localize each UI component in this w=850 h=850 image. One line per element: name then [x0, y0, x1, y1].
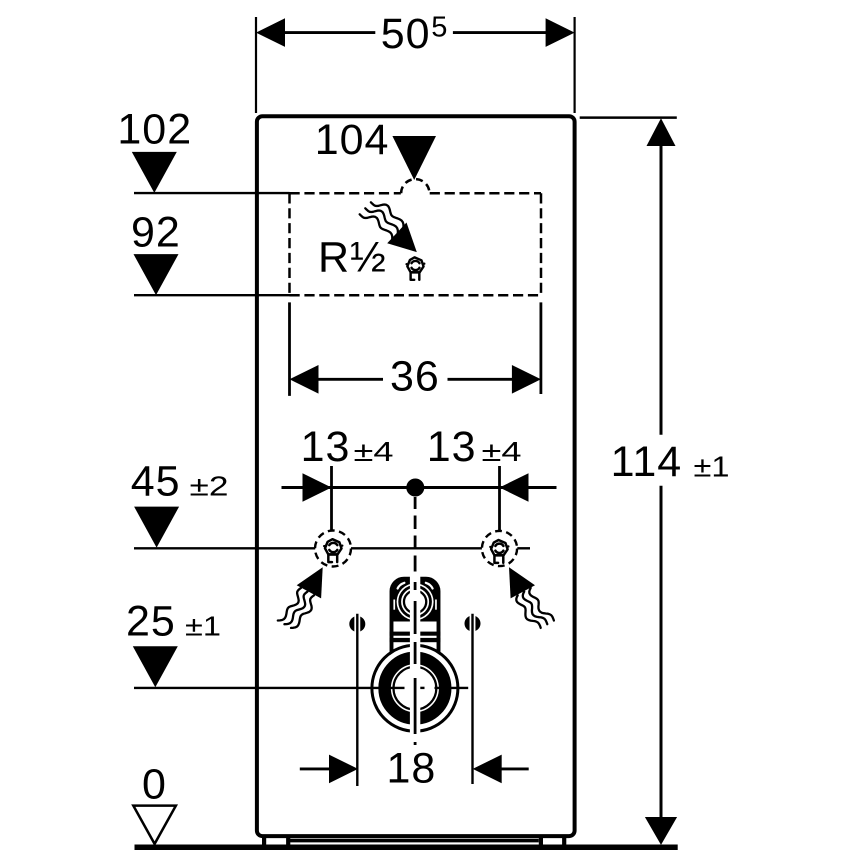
dashed circle left fitting — [315, 531, 351, 567]
water supply fitting icon (top) — [405, 257, 425, 279]
centerline white halo — [410, 574, 420, 734]
left bolt line / dimension 18 extension left — [356, 614, 358, 786]
left bolt halo — [354, 616, 360, 633]
svg-text:25: 25 — [126, 598, 176, 646]
svg-text:13: 13 — [427, 423, 477, 471]
center reference dot — [406, 479, 424, 497]
dimension 13 line — [282, 486, 557, 489]
water flow squiggle left 1 — [278, 588, 301, 621]
base plate line — [290, 839, 539, 843]
water supply fitting icon (left) — [323, 539, 343, 562]
level line 45 segment a — [134, 547, 315, 549]
dimension 50.5 extension line left — [255, 17, 257, 113]
socket flange bar upper — [390, 632, 441, 636]
level marker triangle 25 — [133, 646, 178, 687]
left foot inner tick — [286, 838, 290, 846]
water supply fitting icon (right) — [489, 540, 509, 563]
socket highlight left — [398, 583, 405, 589]
svg-text:50: 50 — [381, 10, 431, 58]
supply zone dashed box top edge left part — [290, 192, 401, 195]
svg-text:0: 0 — [142, 760, 167, 808]
dashed circle right fitting — [482, 531, 517, 566]
dimension 13 extension line left — [330, 466, 333, 530]
flush pipe socket white disc — [397, 583, 434, 620]
dimension 36 line right segment — [448, 378, 514, 381]
svg-text:R½: R½ — [318, 234, 387, 282]
water flow squiggle left 2 — [284, 592, 307, 625]
level line 25 center dash — [420, 687, 425, 689]
water flow squiggle right 3 — [516, 595, 540, 628]
svg-text:102: 102 — [117, 106, 192, 154]
level line 102 — [134, 192, 290, 194]
arrow to supply fitting (top) — [387, 223, 417, 253]
flush pipe socket ring outer — [400, 586, 431, 617]
socket flange bar lower — [390, 638, 441, 642]
dimension 50.5 line right segment — [453, 31, 548, 34]
svg-text:±1: ±1 — [185, 611, 221, 642]
water flow squiggle top 1 — [371, 202, 404, 229]
svg-text:±4: ±4 — [482, 436, 522, 467]
zero level open triangle — [133, 806, 176, 844]
flush pipe socket ring inner — [404, 591, 426, 613]
dimension 13 arrowhead right — [500, 473, 529, 502]
dimension 50.5 extension line right — [573, 17, 575, 113]
right bolt halo — [470, 615, 476, 632]
dimension 36 arrowhead right — [512, 365, 541, 394]
dimension 13 arrowhead left — [303, 473, 332, 502]
drain outlet outer ring — [372, 645, 458, 731]
supply zone dashed box right edge — [540, 193, 543, 295]
svg-text:±1: ±1 — [694, 452, 730, 484]
level line 25 segment b — [435, 687, 469, 689]
dashed arc water inlet position — [401, 179, 429, 193]
dimension 18 line left — [300, 767, 331, 770]
dimension 18 arrowhead left — [329, 755, 358, 784]
dimension 18 arrowhead right — [473, 755, 502, 784]
dimension 50.5 line left segment — [283, 31, 375, 34]
socket side notch right — [435, 600, 437, 610]
level marker triangle 102 — [132, 152, 177, 193]
level marker triangle 92 — [134, 254, 179, 295]
level marker triangle 45 — [134, 507, 179, 548]
level line 45 segment c — [517, 547, 530, 549]
water flow squiggle left 3 — [291, 595, 314, 628]
svg-text:36: 36 — [390, 353, 440, 401]
svg-text:13: 13 — [301, 423, 351, 471]
dimension 18 line right — [500, 767, 529, 770]
svg-text:±2: ±2 — [190, 471, 229, 502]
socket highlight right — [426, 583, 433, 589]
socket side notch left — [393, 600, 395, 610]
water flow squiggle top 2 — [365, 208, 398, 235]
right bolt line / dimension 18 extension right — [471, 614, 473, 784]
svg-text:45: 45 — [131, 458, 181, 506]
svg-text:±4: ±4 — [354, 436, 394, 467]
dimension 50.5 arrowhead right — [546, 18, 575, 47]
dimension 36 arrowhead left — [290, 365, 319, 394]
water flow squiggle right 2 — [523, 592, 548, 625]
drain outlet inner ring — [394, 667, 437, 710]
flush pipe socket outline (stadium) — [392, 579, 439, 664]
svg-text:114: 114 — [611, 438, 683, 486]
svg-text:92: 92 — [131, 208, 181, 256]
module outline rectangle — [257, 116, 575, 836]
water flow squiggle right 1 — [529, 588, 554, 621]
dimension 50.5 arrowhead left — [256, 18, 285, 47]
svg-text:5: 5 — [431, 11, 447, 43]
dimension 36 extension line left — [288, 302, 291, 396]
right foot inner tick — [539, 838, 543, 846]
water flow squiggle top 3 — [360, 214, 393, 241]
left foot outer tick — [262, 838, 266, 846]
right bolt dot — [465, 616, 481, 632]
level line 92 — [134, 294, 290, 296]
supply zone dashed box bottom edge — [290, 294, 542, 297]
dimension 13 extension line right — [498, 466, 501, 530]
ground line — [135, 844, 678, 850]
dimension 114 top tick — [580, 116, 677, 119]
dimension 36 line left segment — [317, 378, 383, 381]
arrow to left fitting — [297, 567, 323, 598]
level marker triangle 104 — [392, 136, 436, 180]
svg-text:104: 104 — [315, 116, 390, 164]
left bolt dot — [349, 616, 365, 632]
flush pipe socket dark fill — [393, 580, 438, 622]
dimension 114 arrowhead up — [647, 118, 676, 146]
right foot outer tick — [562, 838, 566, 846]
drain outlet white interior — [373, 647, 456, 730]
svg-text:18: 18 — [387, 745, 437, 793]
drain outlet thick annulus — [385, 658, 446, 719]
arrow to right fitting — [509, 567, 535, 598]
level line 45 segment b — [351, 547, 482, 549]
supply zone dashed box top edge right part — [430, 192, 541, 195]
vertical dashed centerline — [414, 497, 417, 745]
supply zone dashed box left edge — [288, 193, 291, 295]
dimension 114 line lower — [660, 486, 663, 819]
dimension 36 extension line right — [540, 302, 543, 394]
level line 25 segment a — [134, 687, 405, 689]
dimension 114 line upper — [660, 145, 663, 435]
dimension 114 arrowhead down — [645, 817, 677, 845]
